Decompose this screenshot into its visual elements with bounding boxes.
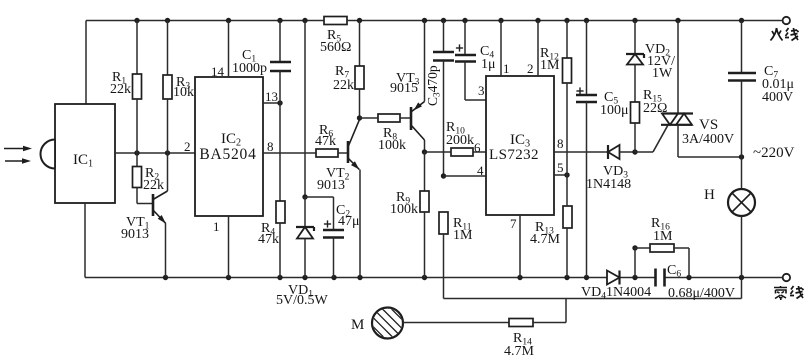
svg-text:9015: 9015 bbox=[390, 81, 418, 96]
svg-text:47k: 47k bbox=[315, 134, 336, 149]
svg-text:1W: 1W bbox=[652, 66, 673, 81]
svg-text:47μ: 47μ bbox=[338, 214, 360, 229]
svg-text:1M: 1M bbox=[453, 228, 473, 243]
svg-text:9013: 9013 bbox=[121, 227, 149, 242]
svg-text:1M: 1M bbox=[540, 58, 560, 73]
svg-text:22k: 22k bbox=[110, 82, 131, 97]
svg-text:100k: 100k bbox=[390, 202, 418, 217]
svg-text:5: 5 bbox=[557, 160, 564, 175]
svg-text:1N4148: 1N4148 bbox=[586, 177, 631, 192]
svg-text:8: 8 bbox=[557, 136, 564, 151]
svg-text:3: 3 bbox=[478, 83, 485, 98]
svg-text:4: 4 bbox=[477, 163, 484, 178]
svg-text:13: 13 bbox=[265, 89, 278, 104]
svg-text:47k: 47k bbox=[258, 232, 279, 247]
svg-text:560Ω: 560Ω bbox=[320, 40, 351, 55]
svg-text:200k: 200k bbox=[446, 133, 474, 148]
svg-text:0.68μ/400V: 0.68μ/400V bbox=[668, 286, 735, 301]
svg-text:H: H bbox=[704, 187, 715, 203]
svg-text:5V/0.5W: 5V/0.5W bbox=[276, 293, 329, 308]
svg-text:~220V: ~220V bbox=[753, 145, 795, 161]
svg-text:LS7232: LS7232 bbox=[489, 147, 539, 163]
svg-text:1M: 1M bbox=[653, 229, 673, 244]
svg-text:22k: 22k bbox=[143, 178, 164, 193]
svg-text:4.7M: 4.7M bbox=[504, 344, 535, 356]
svg-text:22Ω: 22Ω bbox=[643, 101, 667, 116]
svg-text:100k: 100k bbox=[378, 138, 406, 153]
svg-text:1: 1 bbox=[503, 61, 510, 76]
svg-text:M: M bbox=[351, 317, 364, 333]
svg-text:100μ: 100μ bbox=[600, 103, 629, 118]
svg-text:14: 14 bbox=[211, 64, 225, 79]
svg-text:2: 2 bbox=[527, 61, 534, 76]
svg-text:4.7M: 4.7M bbox=[530, 232, 561, 247]
svg-text:VD41N4004: VD41N4004 bbox=[581, 285, 651, 302]
svg-text:1μ: 1μ bbox=[481, 57, 496, 72]
svg-text:C3470p: C3470p bbox=[425, 65, 441, 106]
svg-text:1000p: 1000p bbox=[232, 61, 267, 76]
svg-text:9013: 9013 bbox=[317, 178, 345, 193]
svg-text:3A/400V: 3A/400V bbox=[682, 132, 734, 147]
svg-text:BA5204: BA5204 bbox=[199, 146, 256, 163]
svg-text:22k: 22k bbox=[333, 78, 354, 93]
svg-text:2: 2 bbox=[184, 139, 191, 154]
svg-text:6: 6 bbox=[474, 140, 481, 155]
svg-text:8: 8 bbox=[267, 139, 274, 154]
svg-text:7: 7 bbox=[510, 216, 517, 231]
svg-text:10k: 10k bbox=[173, 85, 194, 100]
svg-text:400V: 400V bbox=[762, 90, 793, 105]
svg-text:VS: VS bbox=[699, 117, 718, 133]
svg-text:1: 1 bbox=[213, 219, 220, 234]
